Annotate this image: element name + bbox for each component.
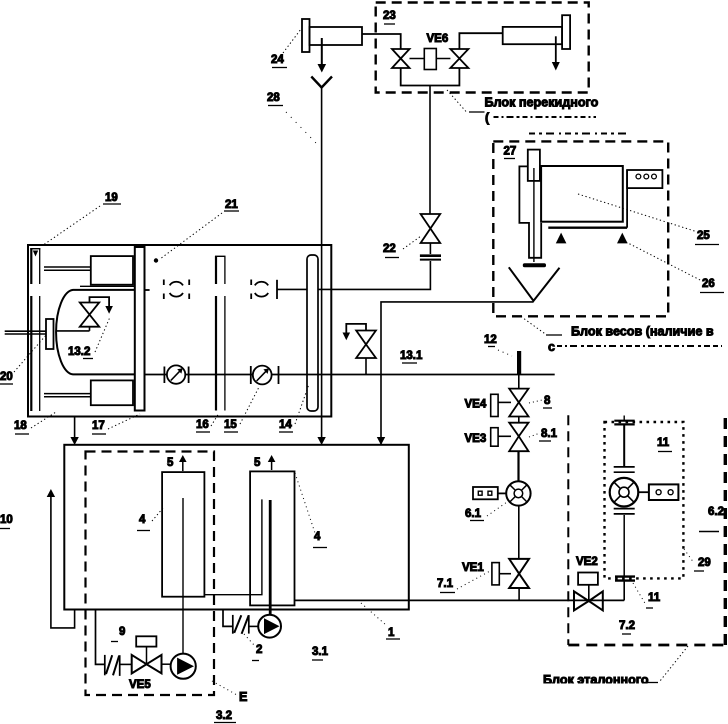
svg-text:5: 5 [167,457,174,469]
label VE3 [465,433,487,445]
sensor box meter 11 [638,484,678,500]
label 16 [196,419,210,432]
label 20 [0,371,13,384]
svg-text:13.2: 13.2 [68,346,90,358]
actuator VE2 [578,573,598,602]
leader block 27 caption [521,317,562,336]
svg-text:VE2: VE2 [576,556,598,568]
label VE4 [465,399,487,411]
leader caption эталонный [660,646,688,681]
label 6.1 [465,508,484,521]
wire muffler down arrow [318,38,327,73]
wire valve 8.1 to meter 6.1 [517,451,519,481]
actuator VE5 [136,636,156,664]
label 25 [695,230,719,245]
svg-text:11: 11 [648,592,661,604]
svg-text:12: 12 [484,334,497,346]
label 8.1 [539,428,558,441]
svg-text:7.2: 7.2 [619,620,635,632]
valve 8 VE4 [509,389,528,417]
balance platform [548,226,627,228]
svg-text:10: 10 [0,514,13,526]
balance connector panel [627,170,662,188]
union below valve 22 [420,243,441,260]
cylinder body right [503,27,562,44]
label 7.1 [437,578,455,593]
label 5 left with arrow [167,455,187,471]
tank right thick tube [269,500,272,615]
central plate 21 [135,247,145,411]
solenoid box VE6 [424,49,436,70]
label 1 [386,627,400,639]
svg-text:11: 11 [657,437,670,449]
machine box 19 [28,245,331,417]
gauge 15 left ticks [164,367,188,384]
arrow below right cylinder [552,36,560,70]
label 11 bottom [646,592,661,608]
gauge right ticks [251,366,279,384]
gauge 15 left [167,365,185,383]
dashed block 3.2 [86,452,215,696]
valve 13.2 [80,303,99,327]
svg-text:27: 27 [504,146,517,158]
dotted box 29 [605,422,684,578]
label 19 [103,192,121,204]
wire meter 11 lower [623,515,625,577]
VE5 hose [105,655,132,676]
svg-text:Е: Е [239,690,247,704]
leader 11 bottom [633,583,646,605]
port stub 12 [517,351,521,375]
VE5 line stub [96,609,105,665]
balance right edge [626,170,628,228]
wire valve 22 down to machine rail [277,261,430,289]
wire meter 11 upper [623,425,625,467]
machine plate 14 [307,255,318,411]
muffler 24 plate [302,19,310,52]
label 2 [252,644,262,661]
balance foot plate [523,263,546,267]
label 12 [484,334,497,347]
svg-text:20: 20 [0,371,13,383]
label 28 [267,92,283,106]
coupling 2 right tick [276,280,278,299]
svg-text:25: 25 [697,230,710,242]
leader 22 [403,236,421,249]
svg-text:с: с [548,340,555,354]
svg-text:13.1: 13.1 [400,350,423,362]
leader 20 [14,334,47,372]
svg-text:VE5: VE5 [129,679,151,691]
weigh funnel [509,267,560,301]
vent funnel 28 [311,77,332,88]
svg-text:9: 9 [119,626,125,638]
leader 3.2 caption [212,681,237,695]
leader 29 [684,549,694,563]
label 9 [111,626,125,642]
leader from 28 [286,112,316,143]
svg-text:8.1: 8.1 [541,428,558,440]
svg-text:21: 21 [225,199,238,211]
garbled text row above weigh block [529,133,627,135]
outlet 10 path [47,489,75,628]
svg-text:VE1: VE1 [462,562,484,574]
svg-text:6.2: 6.2 [708,506,724,518]
tank 4 right [250,471,294,605]
flange bottom meter 11 [615,577,635,581]
svg-text:4: 4 [314,531,321,543]
label 15 [224,419,238,432]
machine bar 16 lower [216,296,225,411]
union above meter 11 [614,467,635,472]
valve 8.1 VE3 [509,423,528,452]
valve 13.1 vent arrow [343,324,367,340]
svg-text:29: 29 [698,557,711,569]
svg-text:8: 8 [544,395,551,407]
leader to 24 [283,29,301,53]
actuator VE1 [492,563,511,585]
flange top meter 11 [614,416,634,425]
label 13.2 [68,346,93,359]
block 27 dashed border [493,141,668,316]
wire VE6 down to valve 22 [429,86,431,215]
actuator VE4 [491,394,511,416]
leader 13.2 [95,317,110,352]
label 3.1 [312,646,329,660]
svg-text:16: 16 [196,419,209,431]
label 22 [383,243,399,258]
wire pipe corner up to meter 11 [623,581,625,600]
svg-text:23: 23 [383,10,396,22]
top rail stub right of plate [145,289,150,291]
svg-text:3.1: 3.1 [312,646,329,658]
label 23 [383,10,396,24]
label 24 [271,54,287,68]
box 1 [64,445,409,610]
svg-text:28: 28 [267,92,280,104]
cylinder plate right [562,15,570,49]
svg-text:4: 4 [139,514,146,526]
svg-text:6.1: 6.1 [465,508,482,520]
svg-text:VE4: VE4 [465,399,487,411]
svg-text:Блок эталонного: Блок эталонного [543,673,649,687]
svg-text:Блок перекидного: Блок перекидного [485,96,599,110]
valve VE5 [132,655,162,674]
pump VE5 [171,654,196,679]
balance left column [519,166,541,257]
wire rail to valve 8 [518,375,520,390]
valve VE6 right [450,49,468,68]
label VE5 [129,679,151,691]
main pipe bottom [295,599,625,601]
label 13.1 [400,350,423,363]
piston rod 20 [5,331,46,334]
label VE1 [462,562,484,574]
meter 6.1 [506,481,530,505]
svg-text:1: 1 [388,627,395,639]
wire VE6 bypass bottom [401,68,460,86]
label 21 [224,199,239,211]
balance rod [533,168,535,262]
tank left inner tube to pump [182,498,184,653]
balance body 25 [541,166,623,222]
leader 17 [108,414,140,429]
label VE2 [576,556,598,568]
leader 1 [361,603,386,625]
dashed border reference block right [724,418,727,645]
balance foot triangle left [556,233,567,244]
leader from block 23 to caption [447,90,485,112]
label 4 right [313,531,327,548]
label 8 [543,395,552,408]
svg-text:22: 22 [383,243,396,255]
wire valve 13.2 stem [56,327,89,331]
wire VE6 right valve to cylinder [459,33,502,49]
svg-text:VE6: VE6 [427,33,449,45]
leader 26 [626,242,702,281]
svg-text:18: 18 [14,420,27,432]
tank right thin tube [204,499,262,594]
valve 22 [421,214,441,243]
leader 15 [240,387,259,424]
leader 12 [498,350,512,356]
wire muffler to VE6 left valve [362,34,401,49]
label 26 [700,278,724,293]
svg-text:14: 14 [279,419,292,431]
bell dome [56,286,134,374]
wire VE5 to pump [162,663,171,665]
sensor box 6.1 [473,487,506,499]
wire machine outlet left [70,417,78,446]
valve 13.1 stem [365,358,367,375]
svg-text:26: 26 [702,278,715,290]
label 7.2 [619,620,635,634]
coupling 2 [251,280,268,300]
label 4 left [137,514,150,531]
caption Блок эталонного clipped [543,673,649,687]
svg-text:7.1: 7.1 [437,578,454,590]
muffler 24 body [310,27,363,45]
caption эталонный underline [643,682,658,684]
label 27 [504,146,517,159]
piston plate 20 [46,319,54,349]
label 17 [92,420,106,434]
svg-text:17: 17 [92,420,105,432]
coupling 1 [164,280,189,300]
label 6.2 [699,506,724,532]
machine left bar 18 upper [30,249,40,285]
gauge right [253,366,272,385]
wire VE1 stem [518,588,520,600]
label 18 [14,420,29,434]
caption weigh second line garbled [548,340,722,354]
leader 8.1 [529,433,540,437]
leader 21 [154,213,222,263]
valve 13.2 vent arrow [90,297,113,314]
union below meter 11 [614,509,635,514]
svg-text:2: 2 [256,644,262,656]
bottom cylinder [44,380,133,405]
leader 14 [295,384,309,424]
balance piston [528,150,540,181]
machine bar 16 upper [215,256,226,284]
top cylinder 17 [44,256,133,285]
marker arrow in bar 18 [33,251,38,257]
leader 4 right [295,473,315,533]
valve VE6 left [392,49,410,68]
meter 11 [610,478,639,507]
leader 8 [529,400,542,403]
wire box1 riser to weigh funnel [377,302,534,445]
caption second line paren and garbled [485,111,596,125]
svg-text:24: 24 [271,54,284,66]
svg-text:5: 5 [254,457,261,469]
label 14 [279,419,293,432]
valve 13.1 [356,331,376,359]
dashed border reference block bottom [568,644,726,647]
machine left bar 18 lower [31,296,39,411]
pump 2 stub and hose [223,610,258,634]
label 3.2 [214,710,236,723]
leader 7.1 [457,571,490,589]
wire valve 8 to 8.1 [518,417,520,424]
label 11 top [657,437,672,452]
leader 19 [44,206,100,245]
valve VE1 [509,559,529,588]
svg-text:15: 15 [224,419,237,431]
valve VE2 [574,591,603,610]
leader 25 [578,194,696,232]
wire meter 6.1 to VE1 [518,506,520,559]
svg-text:Блок весов (наличие в: Блок весов (наличие в [571,325,714,339]
leader 4 left [152,508,163,521]
label 29 [694,557,711,571]
label 5 right with arrow [254,455,275,470]
balance foot triangle right [617,233,628,244]
leader 2 [244,634,254,645]
label VE6 [427,33,449,45]
caption Блок весов [571,325,714,339]
caption Блок перекидного [485,96,599,110]
leader 6.1 [487,502,507,516]
wire between VE6 valves [410,58,451,60]
wire funnel stem down to box 1 [317,88,325,446]
dashed border reference block left [567,415,569,645]
leader 18 [31,412,56,428]
svg-text:19: 19 [105,192,118,204]
bottom rail [144,374,555,376]
svg-text:3.2: 3.2 [216,710,232,722]
tank 4 left [162,472,204,597]
svg-text:VE3: VE3 [465,433,487,445]
svg-text:(: ( [485,111,490,125]
glyph E clipped [239,690,247,704]
leader 16 [211,413,219,426]
pump 2 [258,615,281,638]
block 23 dashed border [376,3,589,93]
actuator VE3 [491,428,511,447]
label 10 [0,514,13,529]
